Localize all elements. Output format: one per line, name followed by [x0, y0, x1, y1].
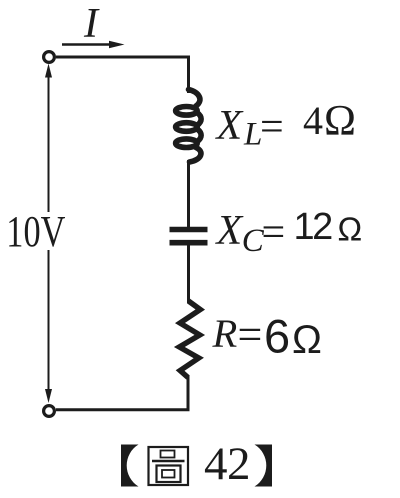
wire resistor to bottom corner	[187, 376, 190, 410]
wire top horizontal	[56, 56, 190, 59]
terminal circle bottom-left	[44, 406, 55, 417]
svg-text:6: 6	[264, 310, 290, 363]
tu top small box	[161, 451, 175, 458]
svg-text:I: I	[83, 1, 100, 47]
wire capacitor to resistor	[187, 245, 190, 303]
resistor R zigzag	[179, 301, 200, 378]
inductor L coil	[176, 90, 202, 163]
svg-text:X: X	[215, 103, 245, 149]
caption character tu (figure) outer box	[149, 447, 189, 485]
svg-text:Ω: Ω	[338, 211, 363, 248]
wire inductor to capacitor	[187, 160, 190, 227]
svg-text:42: 42	[204, 438, 250, 490]
current arrow	[62, 43, 111, 45]
svg-text:X: X	[215, 208, 245, 254]
svg-text:=: =	[262, 210, 286, 256]
svg-text:12: 12	[294, 206, 333, 248]
tu wide bar	[152, 460, 185, 463]
svg-text:4: 4	[303, 98, 323, 143]
tu middle box	[157, 466, 181, 483]
svg-text:Ω: Ω	[292, 318, 322, 362]
svg-text:10V: 10V	[6, 207, 66, 256]
source dimension line upper segment	[48, 75, 50, 212]
caption right lenticular bracket	[255, 445, 273, 487]
svg-text:Ω: Ω	[324, 98, 356, 145]
source arrowhead up	[45, 64, 52, 78]
source arrowhead down	[45, 389, 52, 403]
tu inner small box	[162, 470, 175, 478]
wire right vertical upper	[187, 56, 190, 94]
source dimension line lower segment	[48, 250, 50, 392]
svg-text:R: R	[212, 311, 238, 356]
terminal circle top-left	[44, 52, 55, 63]
capacitor C bottom plate	[170, 240, 208, 246]
svg-text:=: =	[260, 105, 284, 151]
caption left lenticular bracket	[121, 445, 139, 487]
svg-text:=: =	[238, 310, 263, 359]
wire bottom horizontal	[56, 408, 190, 411]
capacitor C top plate	[170, 227, 208, 233]
